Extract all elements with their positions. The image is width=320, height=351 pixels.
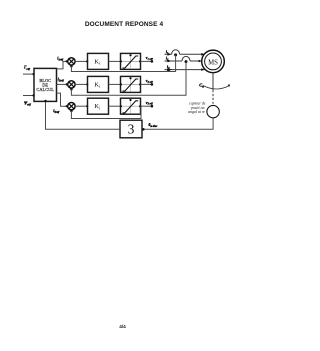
wire summer1 to K1	[75, 60, 88, 62]
wire limiter2 output stub	[141, 83, 154, 86]
block limiter 2	[120, 76, 141, 92]
node i2 label	[166, 57, 169, 62]
svg-text:Ψréf: Ψréf	[24, 100, 32, 106]
node v3_ref label	[146, 101, 154, 106]
wire K2 to limiter 2	[109, 83, 121, 85]
current sensor phase 1	[172, 50, 180, 57]
wire feedback bus 2	[71, 62, 186, 96]
svg-text:θm élec: θm élec	[149, 123, 159, 128]
summer X3	[68, 103, 75, 113]
svg-text:v2 réf: v2 réf	[146, 79, 154, 84]
node i1 label	[166, 50, 169, 55]
node v2_ref label	[146, 79, 154, 84]
svg-text:MS: MS	[208, 57, 218, 66]
wire phase 1	[165, 53, 205, 56]
node i1_ref label	[57, 55, 64, 61]
wire block3 to BLOC	[44, 100, 120, 130]
motor entry arrowheads	[199, 53, 205, 71]
wire K1 to limiter 1	[109, 60, 121, 62]
block BLOC DE CALCUL	[34, 68, 57, 101]
wire phase 3	[165, 68, 205, 71]
wire summer3 to K3	[75, 105, 88, 107]
wire Psi_ref input	[23, 94, 35, 96]
node v1_ref label	[146, 56, 154, 61]
wire Gamma_ref input	[23, 73, 35, 75]
svg-text:Ki: Ki	[94, 58, 101, 65]
wire K3 to limiter 3	[109, 105, 121, 107]
node capteur label	[188, 102, 206, 115]
wire feedback bus 1	[71, 55, 175, 72]
svg-text:Γréf: Γréf	[23, 65, 31, 71]
svg-text:3: 3	[128, 121, 135, 136]
block K1	[88, 53, 109, 69]
node i2_ref label	[58, 77, 65, 83]
svg-text:Ki: Ki	[94, 81, 101, 88]
node i3 label	[167, 65, 170, 70]
title	[0, 21, 248, 28]
block K3	[88, 98, 109, 114]
wire BLOC out1 to summer 1	[57, 60, 68, 69]
svg-text:i3réf: i3réf	[53, 108, 60, 114]
current sensor phase 2	[182, 56, 190, 63]
motor MS	[202, 50, 225, 73]
summer X1	[68, 58, 75, 68]
svg-text:v1 réf: v1 réf	[146, 56, 154, 61]
block K2	[88, 76, 109, 92]
wire sensor to block 3	[142, 118, 213, 131]
node theta label	[149, 123, 159, 128]
summer X2	[68, 81, 75, 91]
torque arrow	[203, 85, 230, 90]
block 3	[120, 120, 142, 138]
svg-text:CALCUL: CALCUL	[36, 87, 54, 92]
node i3_ref label	[53, 108, 60, 114]
wire summer2 to K2	[75, 83, 88, 85]
svg-text:v3 réf: v3 réf	[146, 101, 154, 106]
node Cu torque label	[199, 82, 204, 88]
wire feedback bus 3	[71, 107, 141, 119]
svg-text:i1réf: i1réf	[57, 55, 64, 61]
shaft	[212, 73, 214, 106]
wire BLOC out2 to summer 2	[57, 83, 68, 85]
wire BLOC out3 to summer 3	[57, 93, 68, 107]
svg-text:angul ai re: angul ai re	[188, 110, 205, 114]
wire phase 2	[165, 60, 202, 63]
node Gamma_ref input label	[23, 65, 31, 71]
wire limiter3 output stub	[141, 105, 154, 108]
svg-text:Ki: Ki	[94, 103, 101, 110]
block limiter 3	[120, 98, 141, 114]
position sensor	[207, 105, 219, 117]
svg-text:i2réf: i2réf	[58, 77, 65, 83]
page number	[0, 324, 247, 329]
wire limiter1 output stub	[141, 60, 154, 63]
block limiter 1	[120, 53, 141, 69]
node Psi_ref input label	[24, 100, 32, 106]
